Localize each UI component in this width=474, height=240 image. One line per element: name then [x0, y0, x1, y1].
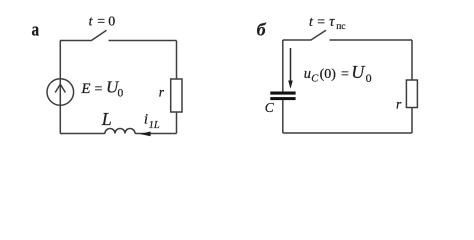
svg-text:C: C	[265, 100, 275, 115]
svg-text:1L: 1L	[149, 120, 160, 131]
label t = tau_ps	[309, 14, 346, 32]
svg-text:L: L	[101, 109, 112, 129]
svg-text:б: б	[257, 20, 267, 40]
svg-text:a: a	[32, 20, 40, 41]
label r (circuit a)	[159, 84, 165, 99]
svg-text:τ: τ	[329, 14, 335, 30]
svg-text:=: =	[341, 67, 349, 82]
wire left side upper (circuit b)	[282, 40, 284, 92]
svg-text:u: u	[304, 66, 311, 82]
wire bottom-right segment (circuit a)	[135, 133, 177, 135]
source E (EMF circle)	[47, 79, 74, 106]
wire left side lower (circuit b)	[282, 100, 284, 133]
label t = 0	[89, 15, 116, 30]
label C	[265, 100, 275, 115]
svg-text:=: =	[317, 15, 325, 30]
svg-text:пс: пс	[336, 22, 345, 32]
svg-text:r: r	[396, 96, 402, 111]
voltage arrow uC (pointing down)	[288, 48, 293, 89]
resistor r (circuit a)	[171, 79, 182, 112]
svg-text:C: C	[311, 73, 319, 84]
label r (circuit b)	[396, 96, 402, 111]
wire top-left segment (circuit a)	[60, 40, 91, 42]
current arrow i1L (pointing left)	[140, 132, 151, 137]
inductor L	[105, 129, 135, 134]
wire top-right segment (circuit b)	[330, 39, 413, 41]
wire top-right segment (circuit a)	[109, 40, 177, 42]
label uC(0) = U0	[304, 62, 372, 85]
wire left side (circuit a)	[59, 41, 61, 134]
svg-text:U: U	[351, 62, 365, 82]
svg-text:=: =	[95, 82, 103, 97]
wire bottom-left segment (circuit a)	[60, 133, 105, 135]
svg-text:(0): (0)	[320, 67, 337, 82]
wire bottom (circuit b)	[283, 132, 412, 134]
svg-text:i: i	[144, 112, 148, 128]
label a (subfigure)	[32, 20, 40, 41]
wire right side (circuit a)	[176, 41, 178, 134]
svg-text:0: 0	[118, 87, 124, 99]
switch S1 blade (t=0)	[91, 30, 107, 41]
switch S2 blade (t = tau_ps)	[311, 30, 327, 40]
wire right side (circuit b)	[411, 40, 413, 133]
resistor r (circuit b)	[406, 80, 417, 108]
svg-text:0: 0	[108, 15, 115, 30]
label L	[101, 109, 112, 129]
svg-text:=: =	[97, 15, 105, 30]
label E = U0 (value of source)	[80, 78, 123, 100]
svg-text:E: E	[80, 81, 90, 97]
label i1L	[144, 112, 160, 132]
svg-text:r: r	[159, 84, 165, 99]
label b (subfigure)	[257, 20, 267, 40]
wire top-left segment (circuit b)	[283, 39, 311, 41]
svg-text:0: 0	[366, 71, 372, 85]
capacitor C plates	[270, 92, 295, 101]
